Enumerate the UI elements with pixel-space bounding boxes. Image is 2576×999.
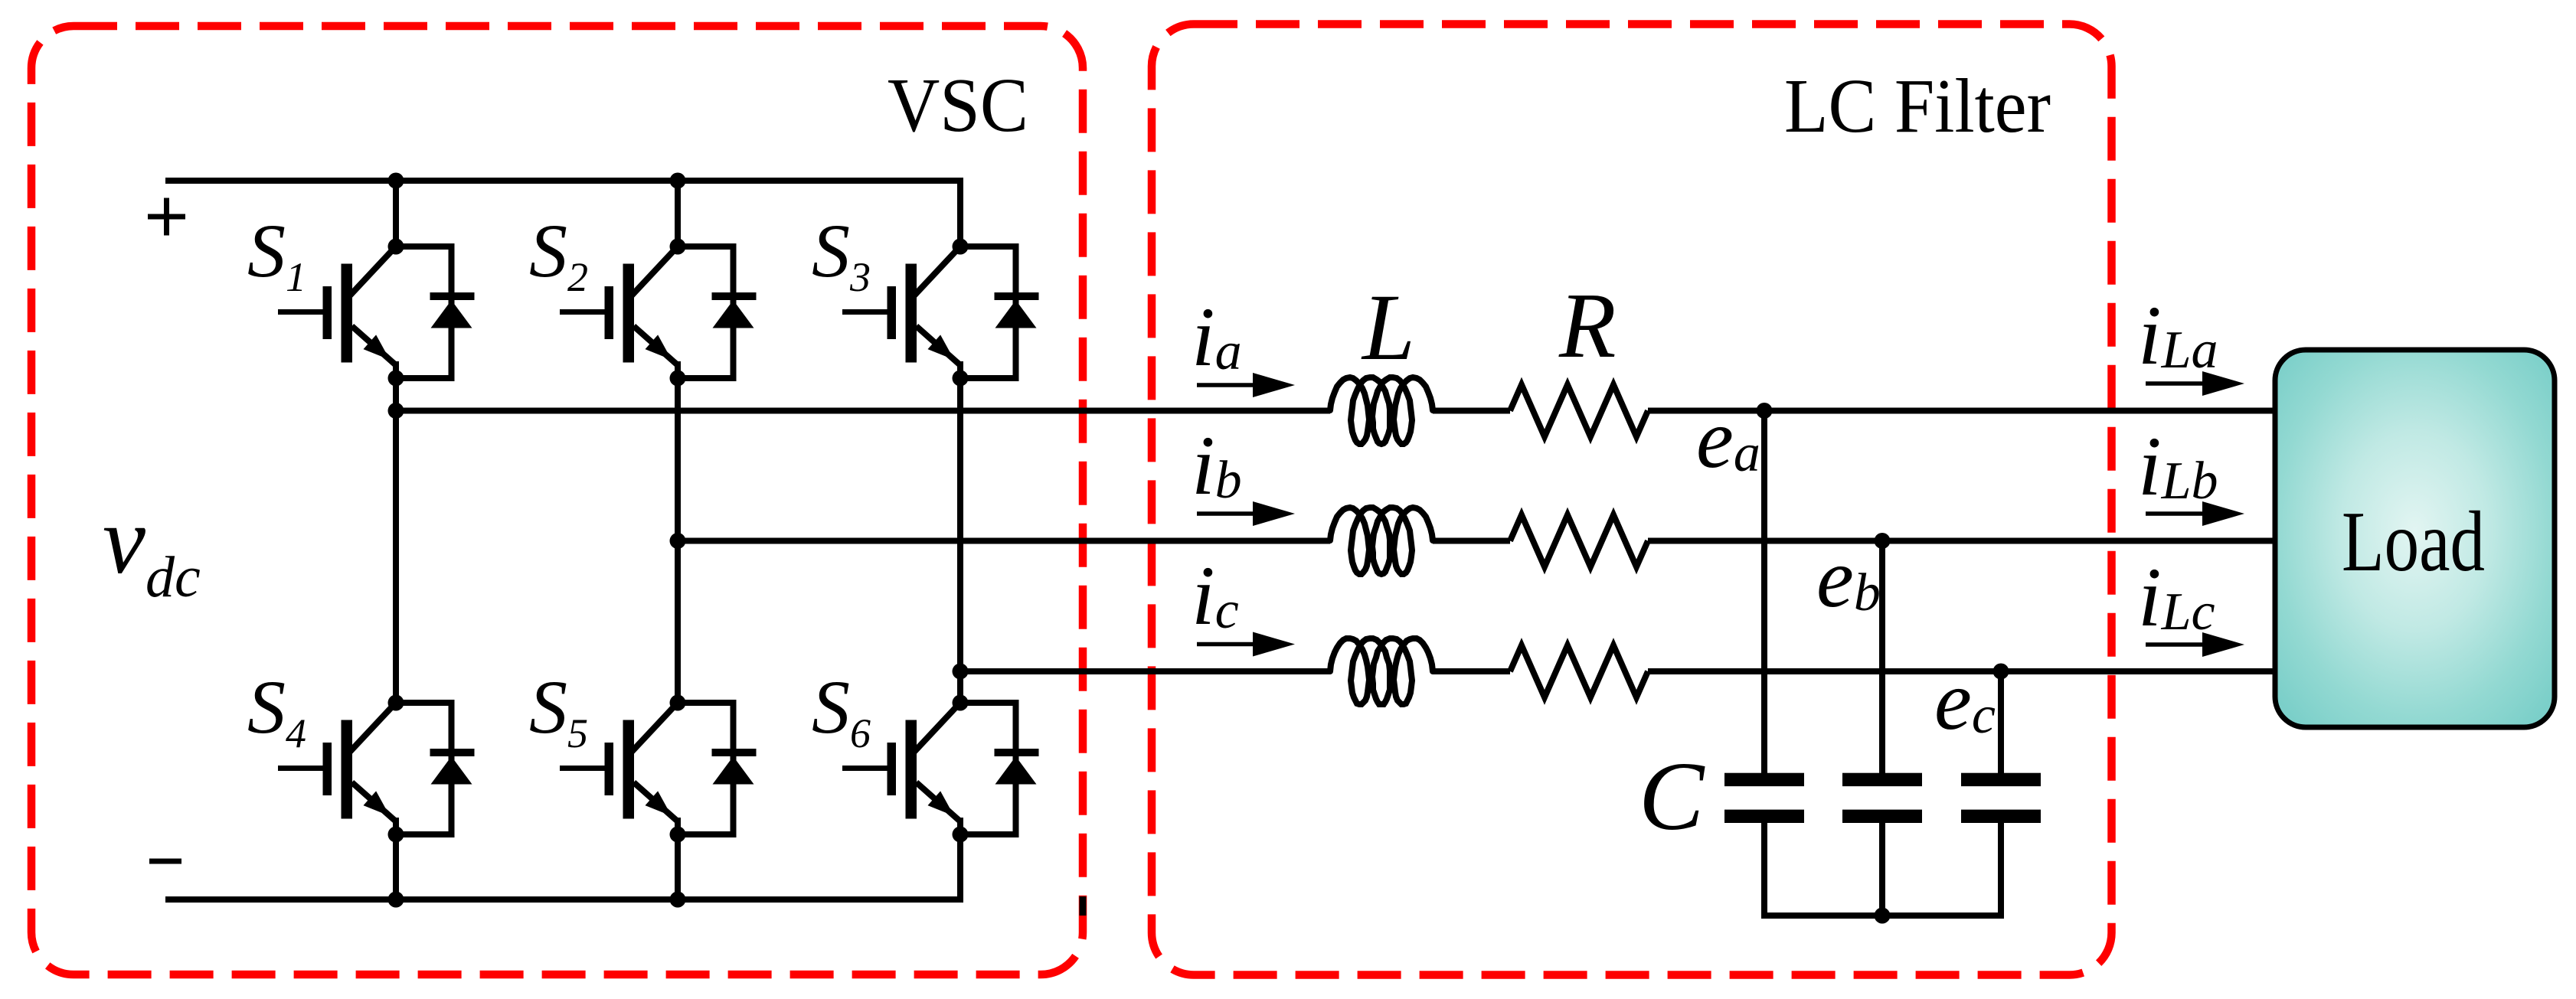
arrow i_b — [1197, 511, 1259, 516]
svg-text:R: R — [1558, 274, 1617, 377]
transistor S3 (IGBT) — [842, 248, 960, 378]
resistor phase c — [1510, 645, 1648, 697]
wire DC+ bus — [165, 181, 960, 246]
node e_a vertical wire — [1761, 411, 1767, 775]
capacitor C phase b — [1842, 773, 1922, 823]
junction S-bottom collector leg b — [670, 695, 686, 711]
junction DC- at leg a — [388, 892, 404, 908]
wire phase b inductor to resistor — [1433, 538, 1510, 544]
node e_c vertical wire — [1998, 671, 2004, 775]
svg-text:VSC: VSC — [888, 62, 1028, 148]
resistor R phase a — [1510, 385, 1648, 437]
capacitor C phase c — [1961, 773, 2041, 823]
transistor S4 (IGBT) — [278, 704, 396, 834]
wire phase c resistor to load — [1648, 668, 2275, 674]
junction S-bottom emitter leg b — [670, 827, 686, 843]
node e_c — [1993, 664, 2009, 680]
node e_b vertical wire — [1879, 541, 1885, 775]
arrow i_La — [2146, 381, 2208, 386]
svg-text:C: C — [1639, 742, 1705, 850]
wire phase a resistor to load — [1648, 408, 2275, 414]
wire cap b lower lead — [1879, 823, 1885, 916]
inductor phase b — [1330, 508, 1433, 574]
wire phase a inductor to resistor — [1433, 408, 1510, 414]
transistor S1 (IGBT) — [278, 248, 396, 378]
diode D4 antiparallel with S4 — [396, 703, 475, 834]
junction S-top collector leg a — [388, 239, 404, 255]
junction S-bottom collector leg a — [388, 695, 404, 711]
capacitor C phase a — [1724, 773, 1804, 823]
arrow i_Lb — [2146, 511, 2208, 516]
diode D3 antiparallel with S3 — [960, 246, 1039, 378]
wire leg b lower — [675, 834, 681, 899]
wire leg a lower — [393, 834, 399, 899]
diode D5 antiparallel with S5 — [678, 703, 757, 834]
arrow i_Lc — [2146, 642, 2208, 647]
wire leg b middle — [675, 378, 681, 703]
inductor L phase a — [1330, 377, 1433, 444]
VSC region dashed border — [31, 26, 1083, 975]
diode D6 antiparallel with S6 — [960, 703, 1039, 834]
wire leg c middle — [957, 378, 963, 703]
resistor phase b — [1510, 515, 1648, 567]
wire phase a from VSC to inductor — [396, 408, 1330, 414]
diode D1 antiparallel with S1 — [396, 246, 475, 378]
junction DC- at leg b — [670, 892, 686, 908]
junction phase b tap — [670, 533, 686, 549]
wire phase b resistor to load — [1648, 538, 2275, 544]
junction S-top collector leg b — [670, 239, 686, 255]
arrow i_a — [1197, 383, 1259, 387]
transistor S5 (IGBT) — [560, 704, 678, 834]
junction capacitor bus — [1875, 908, 1891, 924]
node e_b — [1875, 533, 1891, 549]
transistor S6 (IGBT) — [842, 704, 960, 834]
wire leg b upper — [675, 181, 681, 246]
wire capacitor common bus — [1764, 823, 2001, 916]
svg-text:Load: Load — [2342, 495, 2485, 589]
wire DC- bus — [165, 834, 960, 899]
junction S-top emitter leg c — [953, 371, 969, 387]
stub black tick on VSC border — [1080, 896, 1087, 916]
junction S-top emitter leg a — [388, 371, 404, 387]
wire phase b from VSC to inductor — [678, 538, 1330, 544]
LC Filter region dashed border — [1152, 24, 2112, 975]
wire phase c from VSC to inductor — [960, 668, 1330, 674]
plus terminal — [148, 214, 185, 220]
junction phase c tap — [953, 664, 969, 680]
wire leg a upper — [393, 181, 399, 246]
junction S-bottom collector leg c — [953, 695, 969, 711]
diode D2 antiparallel with S2 — [678, 246, 757, 378]
junction S-top collector leg c — [953, 239, 969, 255]
junction DC+ at leg a — [388, 173, 404, 189]
minus terminal — [149, 859, 181, 864]
svg-text:LC Filter: LC Filter — [1784, 63, 2051, 149]
transistor S2 (IGBT) — [560, 248, 678, 378]
junction S-bottom emitter leg c — [953, 827, 969, 843]
junction DC+ at leg b — [670, 173, 686, 189]
junction phase a tap — [388, 403, 404, 419]
svg-text:L: L — [1361, 275, 1415, 380]
inductor phase c — [1330, 638, 1433, 704]
node e_a — [1757, 403, 1773, 419]
junction S-bottom emitter leg a — [388, 827, 404, 843]
junction S-top emitter leg b — [670, 371, 686, 387]
wire phase c inductor to resistor — [1433, 668, 1510, 674]
arrow i_c — [1197, 642, 1259, 647]
wire leg a middle — [393, 378, 399, 703]
load block — [2275, 350, 2555, 727]
